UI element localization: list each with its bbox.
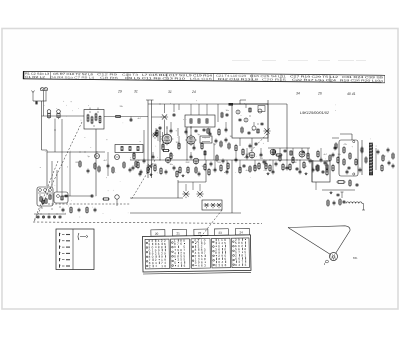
svg-text:23: 23	[218, 231, 222, 235]
svg-text:C8 R6: C8 R6	[100, 76, 119, 80]
svg-text:22: 22	[198, 231, 202, 235]
svg-text:R18 C26 R20 L10a: R18 C26 R20 L10a	[340, 78, 384, 82]
svg-text:1M: 1M	[202, 166, 205, 168]
svg-text:L6a C16: L6a C16	[190, 77, 213, 81]
svg-text:C1 R2 L2: C1 R2 L2	[25, 75, 46, 79]
svg-text:1M: 1M	[176, 142, 179, 144]
svg-text:L9K125/00/01/02: L9K125/00/01/02	[300, 111, 330, 115]
svg-text:24: 24	[239, 231, 243, 235]
svg-text:R12 C18 R13 L8: R12 C18 R13 L8	[218, 77, 259, 81]
svg-text:24: 24	[191, 90, 196, 94]
svg-text:21: 21	[176, 231, 180, 235]
svg-text:C9 L5 C11 R8 C13 R10: C9 L5 C11 R8 C13 R10	[125, 76, 186, 81]
svg-text:34: 34	[296, 92, 300, 96]
svg-text:B61: B61	[353, 256, 358, 260]
svg-text:29: 29	[117, 90, 122, 94]
svg-text:1M: 1M	[230, 136, 233, 138]
svg-text:26: 26	[317, 92, 322, 96]
svg-text:31: 31	[134, 90, 138, 94]
svg-text:31: 31	[168, 90, 172, 94]
svg-text:C22 R17 L9a C24: C22 R17 L9a C24	[292, 78, 337, 82]
svg-text:1M: 1M	[294, 162, 297, 164]
svg-text:C20 R15: C20 R15	[262, 77, 287, 81]
svg-text:C4 R4 S1a C7 R5 L4: C4 R4 S1a C7 R5 L4	[50, 75, 95, 79]
svg-text:40 41: 40 41	[347, 92, 356, 96]
svg-text:20: 20	[155, 232, 159, 236]
